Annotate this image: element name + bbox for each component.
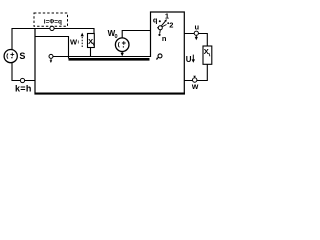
- svg-text:i: i: [78, 40, 79, 45]
- svg-text:k=h: k=h: [15, 83, 32, 93]
- svg-text:X: X: [204, 47, 209, 56]
- svg-text:i=Φ=q: i=Φ=q: [44, 19, 62, 26]
- svg-text:n: n: [162, 34, 167, 43]
- svg-text:X: X: [88, 37, 93, 46]
- svg-text:0: 0: [115, 34, 118, 40]
- svg-text:1: 1: [165, 12, 169, 21]
- svg-text:u: u: [195, 23, 200, 32]
- svg-text:S: S: [19, 51, 25, 61]
- svg-text:2: 2: [169, 20, 173, 29]
- svg-text:U: U: [186, 55, 192, 64]
- svg-text:q: q: [153, 15, 158, 24]
- svg-text:w: w: [191, 81, 199, 91]
